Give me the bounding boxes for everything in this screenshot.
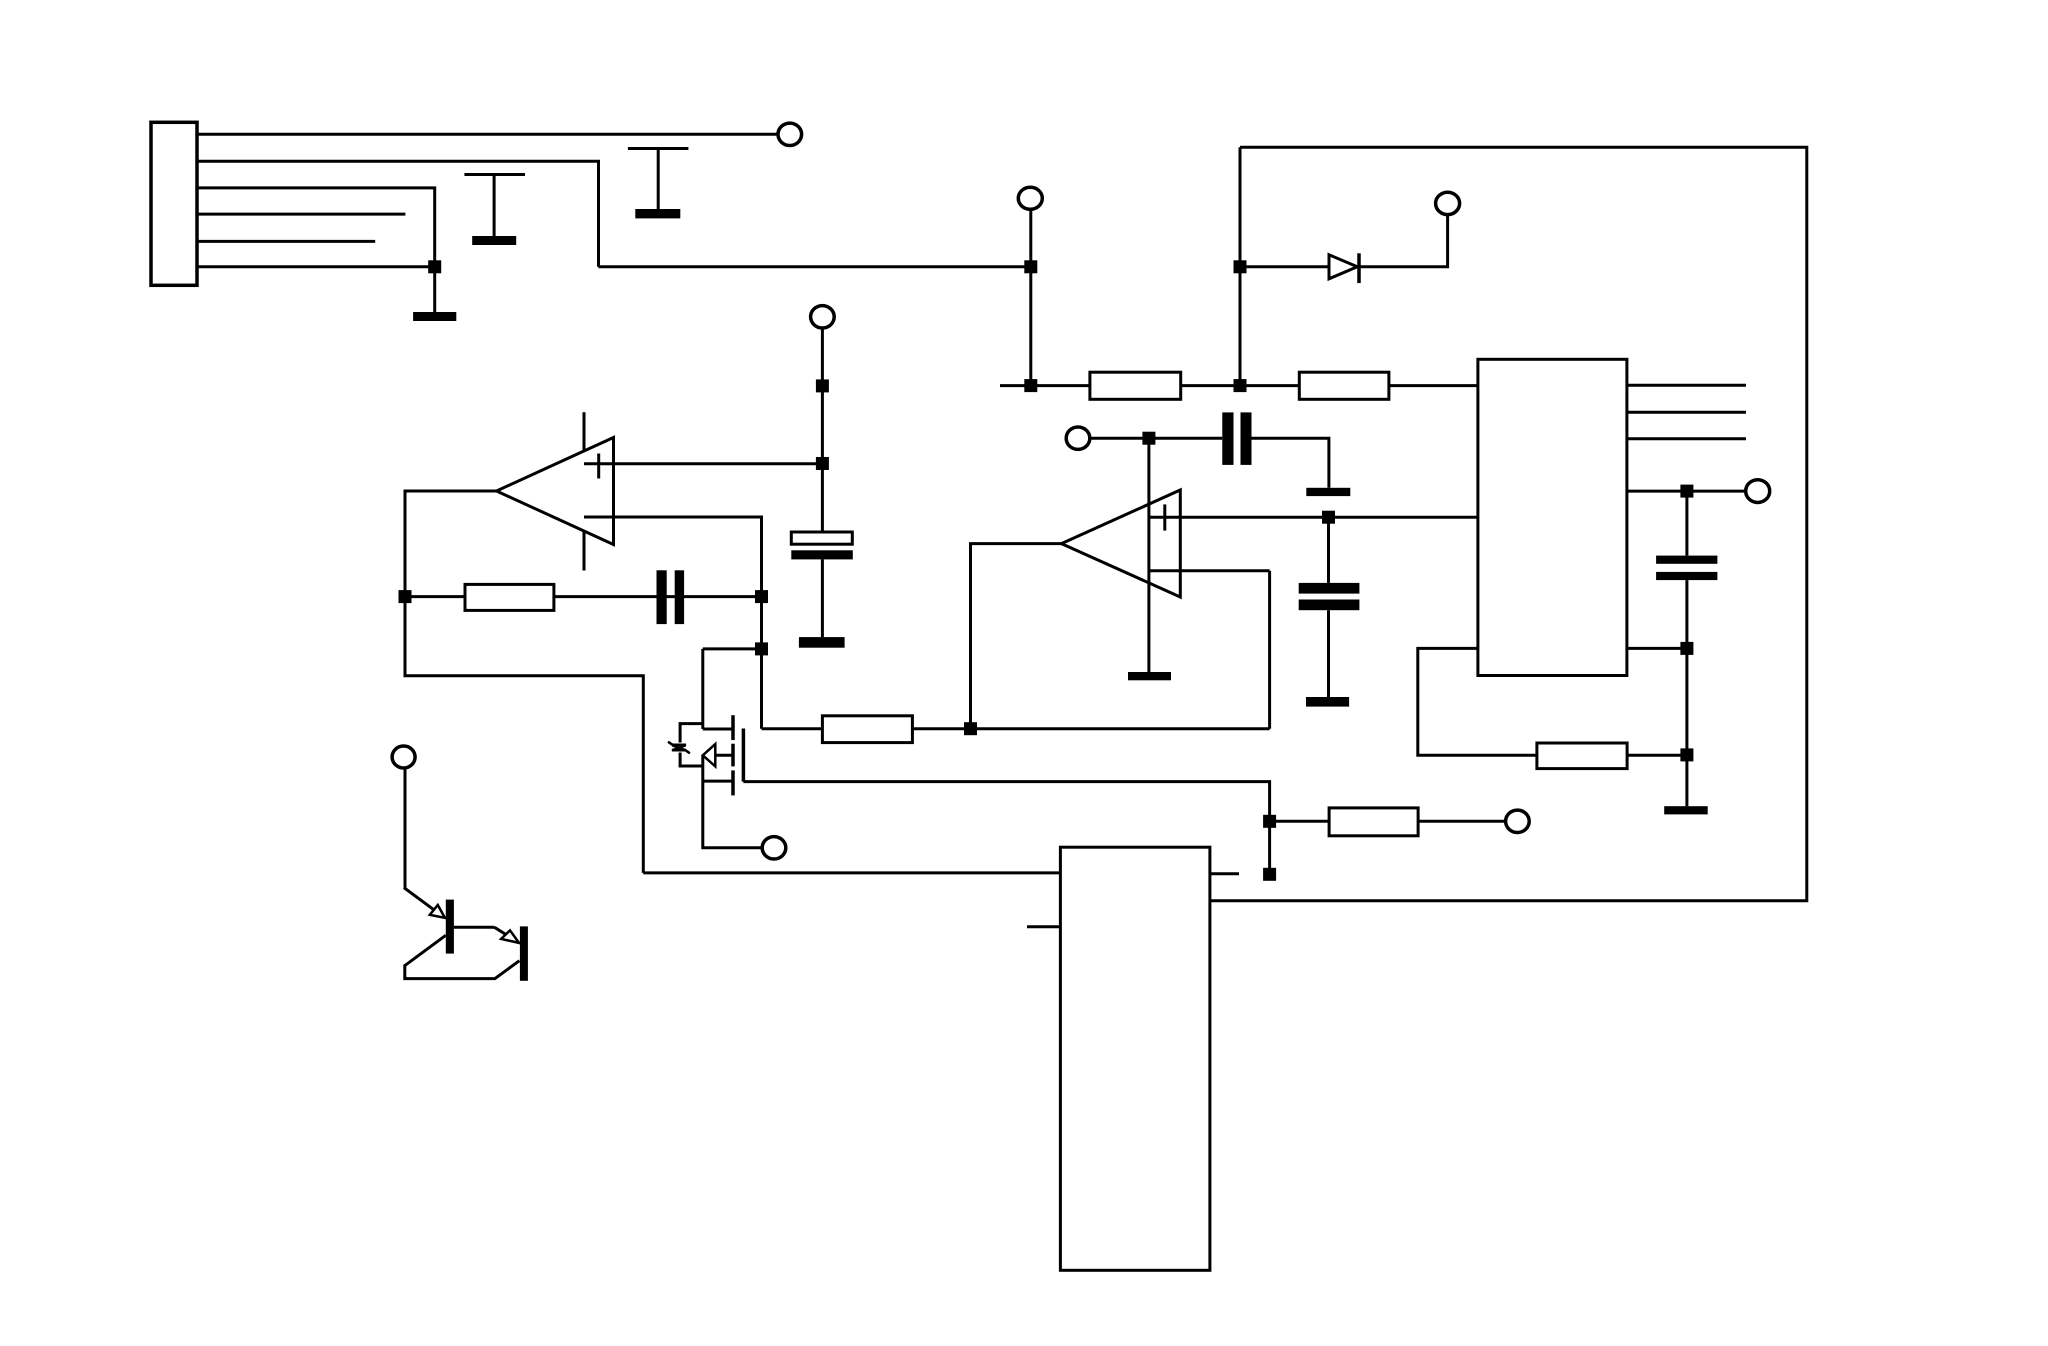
wire row C — [599, 265, 1031, 268]
node end square gate branch — [1263, 868, 1276, 881]
node junction diode tap — [1234, 260, 1247, 273]
terminal T5 — [1506, 810, 1530, 832]
ground symbol B — [628, 149, 689, 219]
wire pin6 J1 — [197, 265, 435, 268]
wire R6 to T5 — [1418, 820, 1506, 823]
wire pin5 J1 — [197, 240, 375, 243]
capacitor C2 polarized — [791, 532, 853, 648]
wire feedback row — [405, 595, 762, 598]
wire big loop top/right/bottom — [1210, 147, 1807, 901]
ground symbol A — [464, 175, 525, 246]
node junction row D left — [1024, 379, 1037, 392]
wire R4 to junction — [912, 727, 1269, 730]
transistor Q1 mosfet — [703, 649, 744, 796]
wire junction to R6 — [1270, 820, 1330, 823]
ground below U4 — [1128, 672, 1171, 680]
wire T8 to C5 — [1090, 437, 1223, 440]
op-amp U1 — [497, 412, 614, 570]
resistor R3 — [465, 584, 554, 610]
wire U2 pin lower left loop — [1418, 648, 1537, 755]
node square on T7 wire — [816, 379, 829, 392]
zener Z1 — [668, 724, 703, 766]
wire U3 right stub — [1210, 872, 1239, 875]
IC U2 — [1478, 359, 1627, 675]
wire R5 to junction — [1627, 754, 1687, 757]
resistor R5 — [1537, 743, 1627, 769]
wire pin3 J1 — [197, 188, 435, 267]
wire U2 stub right 1 — [1627, 384, 1746, 387]
connector J1 — [151, 122, 197, 285]
wire pin4 J1 — [197, 213, 405, 216]
transistor Q2 — [404, 768, 528, 981]
terminal T3 — [1436, 192, 1460, 214]
terminal T9 — [392, 746, 415, 768]
wire diode anode — [1240, 265, 1329, 268]
terminal T7 — [811, 306, 835, 328]
wire U4 -input — [1149, 569, 1270, 572]
diode D1 — [1329, 253, 1359, 283]
node junction feedback left — [399, 590, 412, 603]
wire Q1 gate — [743, 782, 1269, 875]
terminal T8 — [1066, 427, 1090, 449]
wire U3 left pin — [643, 871, 1060, 874]
node junction row C left — [1024, 260, 1037, 273]
node junction T8 row — [1142, 432, 1155, 445]
capacitor C1 — [657, 570, 685, 624]
wire Q1 source to T6 — [703, 781, 763, 848]
wire U2 stub right 2 — [1627, 411, 1746, 414]
terminal T1 — [778, 123, 802, 145]
wire U3 left stub — [1027, 925, 1060, 928]
wire feedback up to -input U4 — [1268, 571, 1271, 729]
capacitor C3 — [1299, 517, 1360, 706]
wire U1 +input — [584, 462, 822, 465]
op-amp U4 — [1061, 438, 1180, 672]
wire U2 pin lower right — [1627, 647, 1687, 650]
resistor R1 — [1090, 372, 1181, 399]
wire U2 stub right 3 — [1627, 437, 1746, 440]
wire U2 pin to T4 — [1627, 490, 1746, 493]
resistor R2 — [1299, 372, 1389, 399]
terminal T6 — [762, 837, 786, 859]
wire U1 -input — [584, 517, 762, 729]
ground below connector — [413, 267, 456, 321]
node junction output/R4 — [964, 722, 977, 735]
capacitor C5 — [1222, 412, 1251, 465]
node junction +input U1 — [816, 457, 829, 470]
capacitor C4 — [1656, 491, 1717, 648]
wire pin1 J1 to T1 — [197, 133, 778, 136]
wire T2 down to row D — [1029, 209, 1032, 385]
resistor R4 — [822, 716, 912, 743]
node junction pin3/pin6 — [428, 260, 441, 273]
wire diode cathode to T3 — [1359, 215, 1448, 267]
wire row D — [1000, 384, 1478, 387]
wire down to R5 row — [1685, 648, 1688, 806]
node junction +input U4 — [1322, 511, 1335, 524]
wire U1 output — [405, 491, 643, 873]
node junction feedback right — [755, 590, 768, 603]
terminal T2 — [1018, 187, 1042, 209]
box U3 — [1060, 847, 1210, 1270]
ground below C5 — [1306, 488, 1350, 496]
wire big loop left vertical — [1239, 147, 1242, 385]
node junction drain tap — [755, 642, 768, 655]
wire C5 to ground — [1252, 438, 1329, 488]
wire U4 output — [971, 544, 1062, 729]
wire pin2 J1 — [197, 161, 599, 267]
node junction C4 bottom — [1680, 642, 1693, 655]
terminal T4 — [1746, 480, 1770, 503]
resistor R6 — [1329, 808, 1418, 836]
node junction R6 left — [1263, 815, 1276, 828]
wire U4 +input — [1149, 516, 1478, 519]
wire T7 down — [821, 328, 824, 532]
ground below R5 junction — [1664, 806, 1708, 814]
node junction T4 tap — [1680, 485, 1693, 498]
node junction row D mid — [1234, 379, 1247, 392]
wire R4 row — [762, 727, 823, 730]
node junction R5 right — [1680, 748, 1693, 761]
wire drain tap left — [703, 647, 762, 650]
